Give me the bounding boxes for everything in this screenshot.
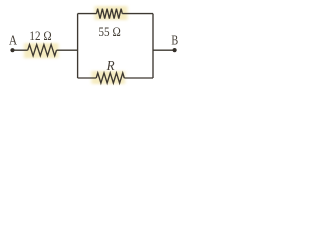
svg-text:R: R (106, 59, 115, 74)
highlight glow behind resistor R1 (24, 43, 59, 58)
wire left vertical branch of parallel box (77, 14, 79, 78)
highlight glow behind resistor R2 (95, 6, 128, 20)
background (0, 0, 195, 97)
svg-text:55 Ω: 55 Ω (98, 24, 121, 39)
node A terminal dot (10, 48, 14, 52)
resistor R1 zigzag (28, 45, 57, 56)
wire R1 to parallel box left node (57, 49, 78, 51)
wire right vertical branch of parallel box (152, 14, 154, 78)
svg-text:12 Ω: 12 Ω (29, 29, 51, 43)
node B terminal dot (173, 48, 177, 52)
wire top-right segment from R2 (122, 13, 153, 15)
highlight glow behind resistor R3 (92, 71, 126, 84)
resistor R3 zigzag (96, 73, 124, 83)
wire bottom-right segment from R3 (124, 77, 153, 79)
resistor R2 zigzag (97, 9, 123, 19)
wire A to R1 (13, 49, 28, 51)
wire box to node B (153, 49, 175, 51)
wire top-left segment to R2 (78, 13, 97, 15)
svg-text:B: B (171, 32, 178, 47)
svg-text:A: A (9, 33, 17, 48)
wire bottom-left segment to R3 (78, 77, 97, 79)
